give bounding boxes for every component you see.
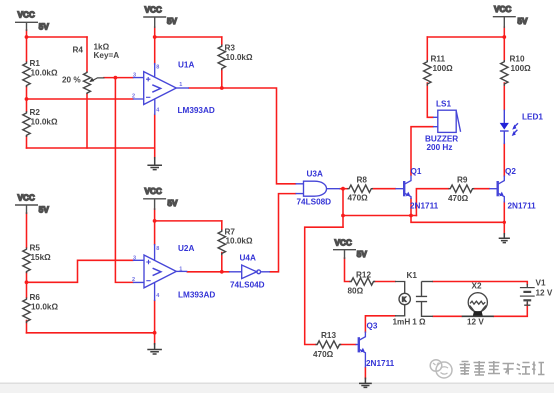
svg-text:12 V: 12 V bbox=[536, 289, 553, 298]
wire ground bus top-left bbox=[27, 147, 155, 149]
svg-text:VCC: VCC bbox=[145, 6, 162, 15]
svg-text:74LS08D: 74LS08D bbox=[297, 198, 332, 207]
svg-text:VCC: VCC bbox=[494, 5, 511, 14]
wire U4A output to U3A input B bbox=[270, 194, 296, 272]
node wiper/pin3 bbox=[114, 76, 118, 80]
svg-text:10.0kΩ: 10.0kΩ bbox=[31, 303, 58, 312]
wire R6 leads bbox=[26, 282, 28, 333]
wire R4 wiper to U1A pin3 bbox=[104, 77, 133, 79]
svg-text:R2: R2 bbox=[30, 108, 41, 117]
svg-text:200 Hz: 200 Hz bbox=[427, 143, 453, 152]
potentiometer R4 1k bbox=[84, 72, 105, 95]
resistor R10 100 bbox=[501, 60, 508, 86]
VCC symbols bbox=[15, 5, 528, 259]
resistor R3 10.0k bbox=[218, 45, 225, 71]
svg-text:R10: R10 bbox=[510, 55, 525, 64]
svg-text:R1: R1 bbox=[30, 59, 41, 68]
svg-text:VCC: VCC bbox=[18, 194, 35, 203]
resistor R8 470 (horizontal) bbox=[347, 185, 373, 192]
wire R1 leads bbox=[26, 37, 28, 99]
inverter U4A 74LS04D bbox=[229, 265, 270, 279]
wire VCC3 rail bbox=[427, 27, 504, 37]
resistor R1 10.0k bbox=[23, 62, 30, 88]
node R6 wire/pin4/ground bbox=[153, 331, 157, 335]
wire R9 left branch bbox=[416, 189, 448, 216]
svg-text:Q2: Q2 bbox=[505, 167, 516, 176]
svg-text:2: 2 bbox=[132, 94, 135, 100]
svg-text:R12: R12 bbox=[356, 271, 371, 280]
transistor Q2 2N1711 bbox=[489, 176, 504, 203]
wire R7 leads bbox=[221, 221, 223, 272]
svg-text:R13: R13 bbox=[321, 331, 336, 340]
svg-text:V1: V1 bbox=[536, 279, 546, 288]
black reference labels bbox=[30, 43, 553, 360]
buzzer LS1 bbox=[433, 110, 461, 132]
node VCC1/R1/R4 bbox=[25, 35, 29, 39]
wire relay contact to battery top bbox=[433, 282, 527, 285]
node Q1 emitter branch bbox=[409, 214, 413, 218]
blue part labels bbox=[132, 61, 543, 369]
svg-text:R5: R5 bbox=[30, 244, 41, 253]
svg-text:LED1: LED1 bbox=[522, 113, 543, 122]
svg-text:R7: R7 bbox=[225, 228, 236, 237]
svg-text:Key=A: Key=A bbox=[94, 51, 120, 60]
svg-text:5V: 5V bbox=[168, 199, 179, 208]
wire Q2 emitter to ground bbox=[503, 202, 505, 234]
ground below U1A bbox=[147, 157, 162, 170]
wire R1-R2 node to U1A pin2 bbox=[27, 98, 133, 100]
wire R13 to Q3 base bbox=[341, 344, 356, 346]
transistor Q1 2N1711 bbox=[395, 176, 411, 200]
svg-text:2: 2 bbox=[132, 277, 135, 283]
transistor Q3 2N1711 bbox=[356, 332, 366, 368]
svg-text:2N1711: 2N1711 bbox=[410, 202, 439, 211]
node R7/U2A out bbox=[220, 270, 224, 274]
watermark logo bbox=[430, 360, 452, 378]
ground Q3 emitter bbox=[359, 378, 372, 388]
svg-text:U2A: U2A bbox=[178, 244, 194, 253]
resistor R13 470 (horizontal) bbox=[316, 341, 342, 348]
wire wiper down to U2A pin2 bbox=[115, 78, 132, 283]
wire Q1 collector to buzzer bbox=[411, 127, 433, 175]
op-amp U2A LM393AD bbox=[133, 244, 188, 301]
power VCC2 5V bbox=[143, 6, 177, 29]
wire relay coil bottom to Q3 collector bbox=[365, 316, 395, 332]
svg-text:U4A: U4A bbox=[240, 254, 256, 263]
ground below U2A bbox=[147, 343, 162, 354]
svg-text:10.0kΩ: 10.0kΩ bbox=[31, 118, 58, 127]
wire node to Q1 emitter and R9 branch bbox=[343, 215, 416, 217]
svg-text:1mH: 1mH bbox=[393, 318, 411, 327]
resistor R7 10.0k bbox=[218, 230, 225, 256]
svg-text:Q3: Q3 bbox=[367, 322, 378, 331]
wire R11 leads bbox=[427, 37, 433, 117]
svg-text:470Ω: 470Ω bbox=[348, 194, 369, 203]
svg-text:VCC: VCC bbox=[145, 187, 162, 196]
node R3/output bbox=[220, 86, 224, 90]
power VCC5 5V bbox=[15, 194, 49, 215]
svg-text:R11: R11 bbox=[431, 55, 446, 64]
svg-text:3: 3 bbox=[133, 255, 136, 261]
ground symbols bbox=[147, 157, 510, 387]
svg-text:X2: X2 bbox=[472, 282, 482, 291]
wire VCC4 down pin8 U2A bbox=[154, 209, 156, 245]
wire battery bottom bbox=[494, 303, 528, 316]
wire down-left to R13 bbox=[305, 227, 343, 344]
wire R3 leads bbox=[221, 37, 223, 88]
svg-text:80Ω: 80Ω bbox=[348, 287, 364, 296]
svg-text:U1A: U1A bbox=[178, 61, 194, 70]
power VCC1 5V bbox=[15, 11, 49, 32]
relay K1 coil and contact bbox=[395, 282, 433, 317]
ground Q2 emitter bbox=[499, 233, 510, 243]
node VCC2/R3/pin8 bbox=[153, 35, 157, 39]
node R5/R6/pin3 wire bbox=[25, 280, 29, 284]
battery V1 12V bbox=[520, 284, 535, 305]
svg-text:74LS04D: 74LS04D bbox=[230, 281, 265, 290]
wire U1A pin4 to ground bbox=[154, 115, 156, 159]
svg-text:K1: K1 bbox=[407, 271, 418, 280]
power VCC3 5V bbox=[493, 5, 528, 28]
svg-text:2N1711: 2N1711 bbox=[508, 202, 537, 211]
watermark text (stylised CJK strokes) bbox=[460, 361, 545, 375]
wire R8 to Q1 base bbox=[373, 188, 396, 190]
svg-text:8: 8 bbox=[156, 246, 159, 252]
svg-text:VCC: VCC bbox=[18, 11, 35, 20]
lamp X2 12V bbox=[462, 293, 494, 317]
resistor R6 10.0k bbox=[23, 298, 30, 324]
svg-text:20 %: 20 % bbox=[62, 76, 81, 85]
svg-text:1: 1 bbox=[179, 266, 182, 272]
svg-text:470Ω: 470Ω bbox=[448, 194, 469, 203]
wire R5 bottom bbox=[26, 273, 28, 283]
svg-text:R6: R6 bbox=[30, 293, 41, 302]
svg-text:LM393AD: LM393AD bbox=[178, 106, 215, 115]
LED1 bbox=[500, 110, 518, 144]
node U3A out/R8 bbox=[341, 187, 345, 191]
op-amp U1A LM393AD bbox=[133, 63, 189, 115]
bottom gray strip bbox=[0, 383, 554, 393]
svg-text:U3A: U3A bbox=[307, 170, 323, 179]
svg-text:100Ω: 100Ω bbox=[511, 64, 532, 73]
svg-text:R4: R4 bbox=[73, 46, 84, 55]
wire R9 to Q2 base bbox=[474, 188, 489, 190]
wire VCC4 to R7 bbox=[155, 220, 222, 222]
svg-text:R3: R3 bbox=[225, 44, 236, 53]
wire Q3 emitter to ground bbox=[364, 368, 366, 379]
resistor R9 470 (horizontal) bbox=[449, 185, 475, 192]
svg-text:15kΩ: 15kΩ bbox=[31, 253, 52, 262]
node U3A branch bbox=[341, 214, 345, 218]
svg-text:5V: 5V bbox=[518, 17, 529, 26]
power VCC4 5V bbox=[143, 187, 178, 210]
svg-text:K: K bbox=[402, 298, 406, 304]
wire Q2 collector up bbox=[503, 144, 505, 177]
svg-text:10.0kΩ: 10.0kΩ bbox=[226, 237, 253, 246]
wire U2A output to U4A input bbox=[187, 271, 229, 273]
svg-text:10.0kΩ: 10.0kΩ bbox=[226, 53, 253, 62]
wire U3A output down bbox=[342, 189, 344, 228]
svg-text:1 Ω: 1 Ω bbox=[412, 318, 426, 327]
resistor R5 15k bbox=[23, 248, 30, 274]
node R1/R2/pin2 bbox=[25, 97, 29, 101]
svg-text:3: 3 bbox=[133, 73, 136, 79]
svg-text:LS1: LS1 bbox=[436, 100, 451, 109]
svg-text:5V: 5V bbox=[357, 250, 368, 259]
svg-text:8: 8 bbox=[156, 65, 159, 71]
svg-text:12 V: 12 V bbox=[467, 318, 484, 327]
resistor R11 100 bbox=[424, 60, 431, 86]
resistors (black zigzags) bbox=[23, 45, 508, 349]
resistor R2 10.0k bbox=[23, 111, 30, 137]
svg-text:R9: R9 bbox=[457, 176, 468, 185]
wire U3A output node bbox=[340, 188, 347, 190]
wire R5-R6 node to U2A pin3 bbox=[27, 260, 133, 282]
wire VCC2 down pin8 U1A bbox=[154, 27, 156, 64]
svg-text:100Ω: 100Ω bbox=[433, 64, 454, 73]
node VCC3/R10/R11 bbox=[502, 35, 506, 39]
svg-text:Q1: Q1 bbox=[411, 167, 422, 176]
svg-text:1: 1 bbox=[179, 82, 182, 88]
wire U1A output to U3A input A bbox=[189, 88, 296, 184]
node Q2 emitter/ground bbox=[503, 221, 506, 224]
svg-text:LM393AD: LM393AD bbox=[178, 291, 215, 300]
wire Q1 emitter down and across bbox=[411, 199, 504, 223]
wire U2A pin4 to ground bbox=[154, 301, 156, 345]
power VCC6 5V bbox=[333, 238, 367, 259]
svg-text:5V: 5V bbox=[39, 206, 50, 215]
svg-text:R8: R8 bbox=[357, 176, 368, 185]
wire R4 leads bbox=[86, 37, 88, 148]
wire R2 leads bbox=[26, 99, 28, 148]
svg-text:470Ω: 470Ω bbox=[313, 350, 334, 359]
svg-text:2N1711: 2N1711 bbox=[366, 359, 395, 368]
wire VCC1 to R4 top bbox=[27, 30, 88, 37]
svg-text:5V: 5V bbox=[39, 23, 50, 32]
wire R12 to relay coil bbox=[375, 281, 395, 283]
svg-text:5V: 5V bbox=[167, 17, 178, 26]
node VCC4/R7 wire/pin8 bbox=[153, 219, 157, 223]
wire VCC2 to R3 bbox=[155, 36, 222, 38]
wire VCC6 to R12 bbox=[345, 258, 350, 282]
svg-text:10.0kΩ: 10.0kΩ bbox=[31, 69, 58, 78]
resistor R12 80 (horizontal) bbox=[350, 278, 376, 285]
wire VCC5 to R5 bbox=[26, 213, 28, 248]
wire lamp to contact bottom bbox=[433, 315, 462, 317]
AND gate U3A 74LS08D bbox=[296, 181, 341, 196]
wire ground bus lower-left bbox=[27, 332, 155, 334]
svg-text:VCC: VCC bbox=[335, 238, 352, 247]
wire R10 leads bbox=[503, 37, 505, 110]
